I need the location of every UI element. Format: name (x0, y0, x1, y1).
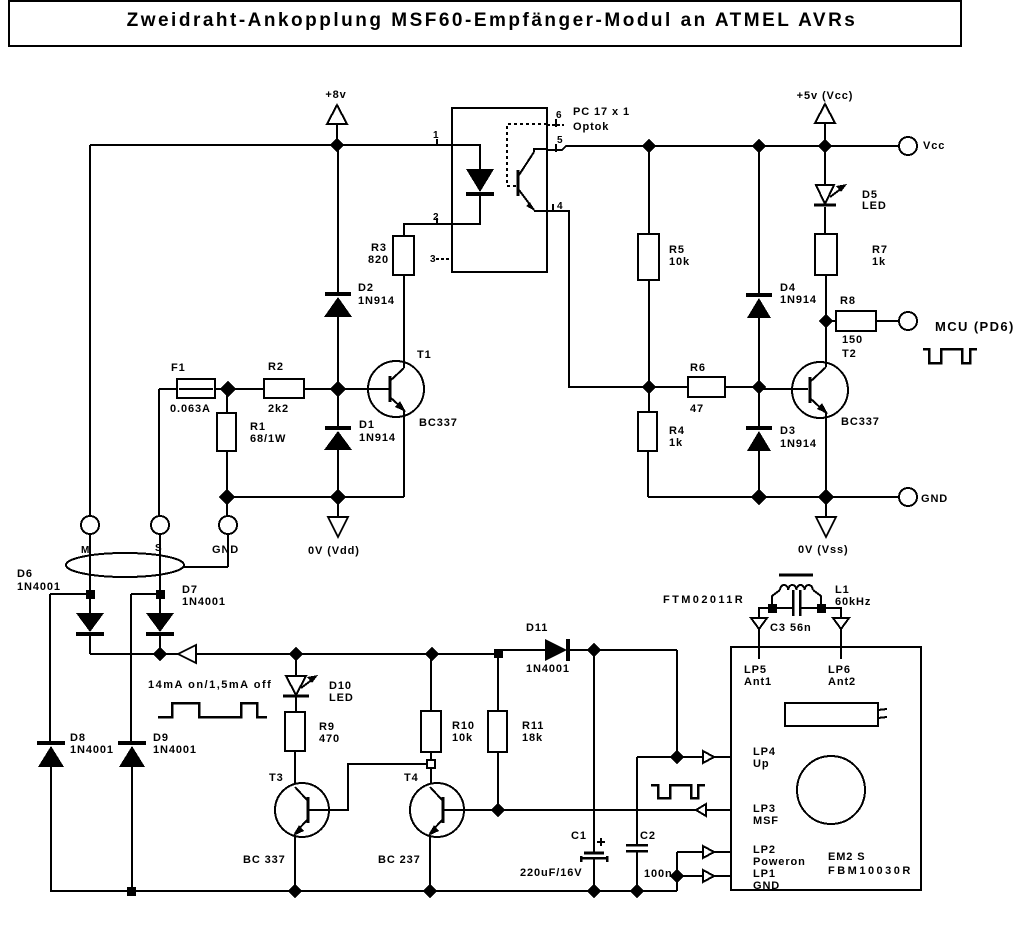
svg-text:FBM10030R: FBM10030R (828, 865, 913, 877)
svg-text:1N914: 1N914 (780, 438, 817, 450)
svg-text:D6: D6 (17, 568, 33, 580)
terminal M (81, 516, 99, 556)
wire R3 to opto pin2 (404, 224, 452, 236)
resistor R8 150 (826, 295, 899, 346)
wire top-left rail (90, 144, 452, 146)
svg-text:C1: C1 (571, 830, 587, 842)
wire signal row y654 (90, 653, 497, 655)
svg-text:Vcc: Vcc (923, 140, 945, 152)
wire D2 to node (337, 317, 339, 389)
diode D2 (324, 282, 395, 317)
svg-text:1N914: 1N914 (359, 432, 396, 444)
svg-text:R7: R7 (872, 244, 888, 256)
resistor R2 2k2 (264, 361, 389, 415)
wire terminal M down (89, 534, 91, 614)
resistor R5 10k (638, 146, 690, 387)
svg-text:R8: R8 (840, 295, 856, 307)
crystal rectangle (785, 703, 887, 726)
diode D6 (17, 568, 104, 654)
svg-text:6: 6 (556, 110, 562, 121)
node junction T2 emitter (819, 490, 833, 504)
svg-text:BC337: BC337 (841, 416, 880, 428)
module EMS FBM10030R box (731, 647, 921, 890)
svg-text:LP6: LP6 (828, 664, 851, 676)
svg-text:56n: 56n (790, 622, 812, 634)
resistor R11 18k (488, 658, 544, 810)
transistor T1 BC337 (368, 349, 458, 429)
diode D7 (146, 584, 226, 654)
wire T2 collector to R8 (825, 321, 827, 367)
wire terminal1 feed (159, 388, 177, 390)
svg-text:D2: D2 (358, 282, 374, 294)
svg-text:BC 337: BC 337 (243, 854, 286, 866)
node square D6 tap (86, 590, 95, 599)
transistor T4 BC237 (378, 772, 464, 866)
wire bottom-left rail (227, 496, 404, 498)
terminal S (151, 516, 169, 554)
antenna coil circle (797, 756, 865, 824)
wire T1 emitter down (403, 410, 405, 497)
diode D9 (118, 732, 197, 891)
node junction LP4 (671, 751, 683, 763)
svg-text:T4: T4 (404, 772, 419, 784)
power +5V (Vcc) (797, 90, 854, 146)
svg-text:S: S (155, 543, 162, 554)
svg-text:LP1: LP1 (753, 868, 776, 880)
capacitor C3 56n (770, 590, 821, 634)
arrow LP5 in (751, 618, 767, 629)
pin 5 (556, 135, 563, 152)
svg-text:2k2: 2k2 (268, 403, 289, 415)
svg-text:2: 2 (433, 212, 439, 223)
LED D10 (283, 654, 354, 704)
op-amp U1 optocoupler PC 17x1 box (452, 108, 547, 272)
resistor R3 820 (368, 236, 414, 275)
svg-text:L1: L1 (835, 584, 850, 596)
title box (9, 1, 961, 46)
wire ellipse to GND (184, 566, 228, 568)
terminal MCU (PD6) (899, 312, 1015, 334)
svg-text:1N4001: 1N4001 (70, 744, 114, 756)
node junction +5V (819, 140, 831, 152)
terminal Vcc (899, 137, 945, 155)
svg-text:T2: T2 (842, 348, 857, 360)
waveform MCU (923, 349, 977, 363)
LED D5 (814, 146, 887, 212)
node square D9 bottom (127, 887, 136, 896)
node square L1 right (817, 604, 826, 613)
wire T3 emitter down (294, 835, 296, 891)
svg-text:5: 5 (557, 135, 563, 146)
capacitor C1 220uF/16V (520, 650, 607, 891)
capacitor C2 100n (626, 757, 673, 891)
svg-text:0.063A: 0.063A (170, 403, 211, 415)
svg-text:LED: LED (862, 200, 887, 212)
terminal GND right (899, 488, 948, 506)
node junction C2 bottom (631, 885, 643, 897)
node junction D7 bottom (154, 648, 166, 660)
wire LP5 antenna (759, 608, 772, 659)
diode D3 (746, 387, 817, 497)
svg-text:+8v: +8v (325, 89, 346, 101)
svg-text:R9: R9 (319, 721, 335, 733)
wire column D9 (130, 594, 132, 741)
svg-text:C3: C3 (770, 622, 786, 634)
node junction R2/D1/T1 (331, 382, 345, 396)
opto LED (452, 145, 494, 224)
pin 2 (433, 212, 439, 225)
svg-text:R2: R2 (268, 361, 284, 373)
svg-text:68/1W: 68/1W (250, 433, 286, 445)
wire D11 to LP4 (676, 650, 678, 757)
svg-text:R11: R11 (522, 720, 544, 732)
svg-text:0V (Vdd): 0V (Vdd) (308, 545, 360, 557)
diode D4 (746, 146, 817, 387)
wire T2 base (759, 388, 808, 390)
node junction D4 top (753, 140, 765, 152)
wire T3 base route (308, 764, 427, 810)
arrow LP2 in (703, 846, 714, 858)
wire terminal S down (159, 534, 161, 614)
wire bottom rail (50, 890, 677, 892)
svg-text:EM2 S: EM2 S (828, 851, 866, 863)
svg-text:R3: R3 (371, 242, 387, 254)
svg-text:C2: C2 (640, 830, 656, 842)
node junction LP1 (671, 870, 683, 882)
svg-text:1N4001: 1N4001 (153, 744, 197, 756)
svg-text:D8: D8 (70, 732, 86, 744)
svg-text:R10: R10 (452, 720, 475, 732)
arrow LP1 in (703, 870, 714, 882)
svg-text:LP3: LP3 (753, 803, 776, 815)
svg-text:1: 1 (433, 130, 439, 141)
svg-text:1N4001: 1N4001 (17, 581, 61, 593)
wire D2 branch (337, 145, 339, 293)
wire LP2/LP1 riser (676, 852, 678, 891)
ground 0V (Vss) (798, 497, 849, 556)
node square T4 collector tap (427, 760, 435, 768)
wire LP1 into module (714, 875, 731, 877)
wire left column D8 (49, 594, 51, 741)
resistor R10 10k (421, 654, 475, 784)
svg-text:Optok: Optok (573, 121, 609, 133)
wire T2 emitter down (825, 413, 827, 497)
svg-text:820: 820 (368, 254, 389, 266)
wire LP3 row (498, 809, 731, 811)
node junction T3 bottom (289, 885, 301, 897)
svg-text:R4: R4 (669, 425, 685, 437)
svg-text:0V (Vss): 0V (Vss) (798, 544, 849, 556)
svg-text:3: 3 (430, 254, 436, 265)
wire LP2 into module (714, 851, 731, 853)
svg-text:+5v (Vcc): +5v (Vcc) (797, 90, 854, 102)
svg-text:D3: D3 (780, 425, 796, 437)
svg-text:D1: D1 (359, 419, 375, 431)
svg-text:18k: 18k (522, 732, 543, 744)
wire T1 collector to R3 (403, 275, 405, 368)
waveform module output (651, 785, 705, 798)
svg-text:1N4001: 1N4001 (182, 596, 226, 608)
svg-text:1k: 1k (872, 256, 886, 268)
svg-text:R5: R5 (669, 244, 685, 256)
fuse F1 0.063A (170, 362, 264, 415)
arrow LP4 in (703, 751, 714, 763)
diode D1 (324, 389, 396, 497)
cable ellipse (66, 553, 184, 577)
svg-text:1N4001: 1N4001 (526, 663, 570, 675)
svg-text:470: 470 (319, 733, 340, 745)
resistor R1 68/1W (217, 389, 286, 497)
pin 1 (433, 130, 439, 146)
node square L1 left (768, 604, 777, 613)
svg-text:GND: GND (921, 493, 948, 505)
opto phototransistor base dashed (507, 124, 547, 186)
svg-text:220uF/16V: 220uF/16V (520, 867, 583, 879)
svg-text:Ant1: Ant1 (744, 676, 772, 688)
svg-text:PC 17 x 1: PC 17 x 1 (573, 106, 630, 118)
svg-text:D7: D7 (182, 584, 198, 596)
power +8V (325, 89, 347, 145)
svg-text:MSF: MSF (753, 815, 779, 827)
wire T4 base to R11 (443, 809, 498, 811)
svg-text:BC337: BC337 (419, 417, 458, 429)
wire LP2 row (677, 851, 703, 853)
node junction D3 bottom (752, 490, 766, 504)
svg-text:1N914: 1N914 (358, 295, 395, 307)
svg-text:1k: 1k (669, 437, 683, 449)
diode D11 1N4001 (503, 622, 677, 675)
inductor L1 60kHz (772, 575, 871, 608)
node junction +8V rail (331, 139, 343, 151)
node junction T4 base (492, 804, 504, 816)
svg-text:R1: R1 (250, 421, 266, 433)
svg-text:1N914: 1N914 (780, 294, 817, 306)
pin 4 (553, 201, 563, 212)
svg-text:MCU (PD6): MCU (PD6) (935, 319, 1015, 334)
svg-text:LP2: LP2 (753, 844, 776, 856)
wire pin5 to Vcc rail (547, 146, 899, 150)
svg-text:100n: 100n (644, 868, 673, 880)
svg-text:LED: LED (329, 692, 354, 704)
node junction T4 bottom (424, 885, 436, 897)
wire D6 stub (50, 593, 90, 595)
wire bottom-right rail (648, 496, 899, 498)
wire LP4 into module (714, 756, 731, 758)
svg-text:Ant2: Ant2 (828, 676, 856, 688)
node junction D10 top (290, 648, 302, 660)
node junction R6 right (753, 381, 765, 393)
svg-text:10k: 10k (669, 256, 690, 268)
svg-text:D10: D10 (329, 680, 352, 692)
node junction R5 top (643, 140, 655, 152)
svg-text:T1: T1 (417, 349, 432, 361)
svg-text:LP4: LP4 (753, 746, 776, 758)
node junction C1 bottom (588, 885, 600, 897)
svg-text:FTM02011R: FTM02011R (663, 594, 745, 606)
wire LP4 row (637, 756, 703, 758)
svg-text:Poweron: Poweron (753, 856, 806, 868)
node square R11 top (494, 649, 503, 658)
node junction R6 left (643, 381, 655, 393)
svg-text:GND: GND (212, 544, 239, 556)
svg-text:LP5: LP5 (744, 664, 767, 676)
svg-text:GND: GND (753, 880, 780, 892)
resistor R6 47 (649, 362, 759, 415)
resistor R7 1k (815, 207, 888, 321)
wire D7 stub (131, 593, 160, 595)
svg-text:T3: T3 (269, 772, 284, 784)
wire left vertical (89, 145, 91, 516)
resistor R9 470 (285, 697, 340, 784)
wire LP6 antenna (821, 608, 841, 659)
node square D7 tap (156, 590, 165, 599)
svg-text:D4: D4 (780, 282, 796, 294)
node junction R8 (820, 315, 832, 327)
waveform current (158, 703, 267, 717)
node junction F1/R1 (221, 382, 235, 396)
node junction GND rail (220, 490, 234, 504)
ground 0V (Vdd) (308, 497, 360, 557)
svg-text:D9: D9 (153, 732, 169, 744)
opto phototransistor (518, 149, 547, 211)
svg-text:14mA on/1,5mA off: 14mA on/1,5mA off (148, 679, 272, 691)
arrow LP3 out (696, 804, 706, 816)
arrow left signal (178, 645, 196, 663)
node junction 0V rail (331, 490, 345, 504)
svg-text:Zweidraht-Ankopplung MSF60-Emp: Zweidraht-Ankopplung MSF60-Empfänger-Mod… (127, 10, 858, 31)
svg-text:F1: F1 (171, 362, 186, 374)
resistor R4 1k (638, 387, 685, 497)
svg-text:150: 150 (842, 334, 863, 346)
terminal GND (212, 497, 239, 567)
pin 6 (547, 110, 564, 127)
transistor T3 BC337 (243, 772, 329, 866)
node junction C1 top (588, 644, 600, 656)
svg-text:60kHz: 60kHz (835, 596, 871, 608)
svg-text:Up: Up (753, 758, 769, 770)
svg-text:R6: R6 (690, 362, 706, 374)
diode D8 (37, 732, 114, 891)
svg-text:D11: D11 (526, 622, 548, 634)
svg-text:10k: 10k (452, 732, 473, 744)
wire LP1 row (677, 875, 703, 877)
pin 3 (430, 254, 452, 265)
node junction R10 top (426, 648, 438, 660)
wire pin4 to R4/R6 node (547, 211, 649, 387)
svg-text:BC 237: BC 237 (378, 854, 421, 866)
svg-text:M: M (81, 545, 90, 556)
wire T4 emitter down (429, 835, 431, 891)
arrow LP6 in (833, 618, 849, 629)
transistor T2 BC337 (792, 348, 880, 428)
svg-text:47: 47 (690, 403, 704, 415)
